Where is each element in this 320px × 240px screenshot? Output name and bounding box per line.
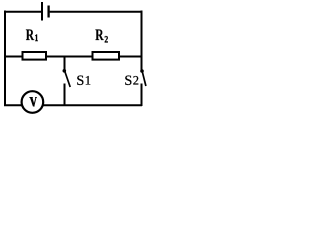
- svg-text:1: 1: [35, 33, 39, 43]
- svg-text:S: S: [124, 73, 132, 89]
- svg-text:2: 2: [133, 74, 139, 88]
- svg-text:R: R: [95, 26, 103, 43]
- svg-text:2: 2: [104, 34, 108, 45]
- svg-text:S: S: [76, 73, 84, 89]
- svg-text:1: 1: [85, 74, 91, 88]
- svg-text:R: R: [26, 26, 34, 43]
